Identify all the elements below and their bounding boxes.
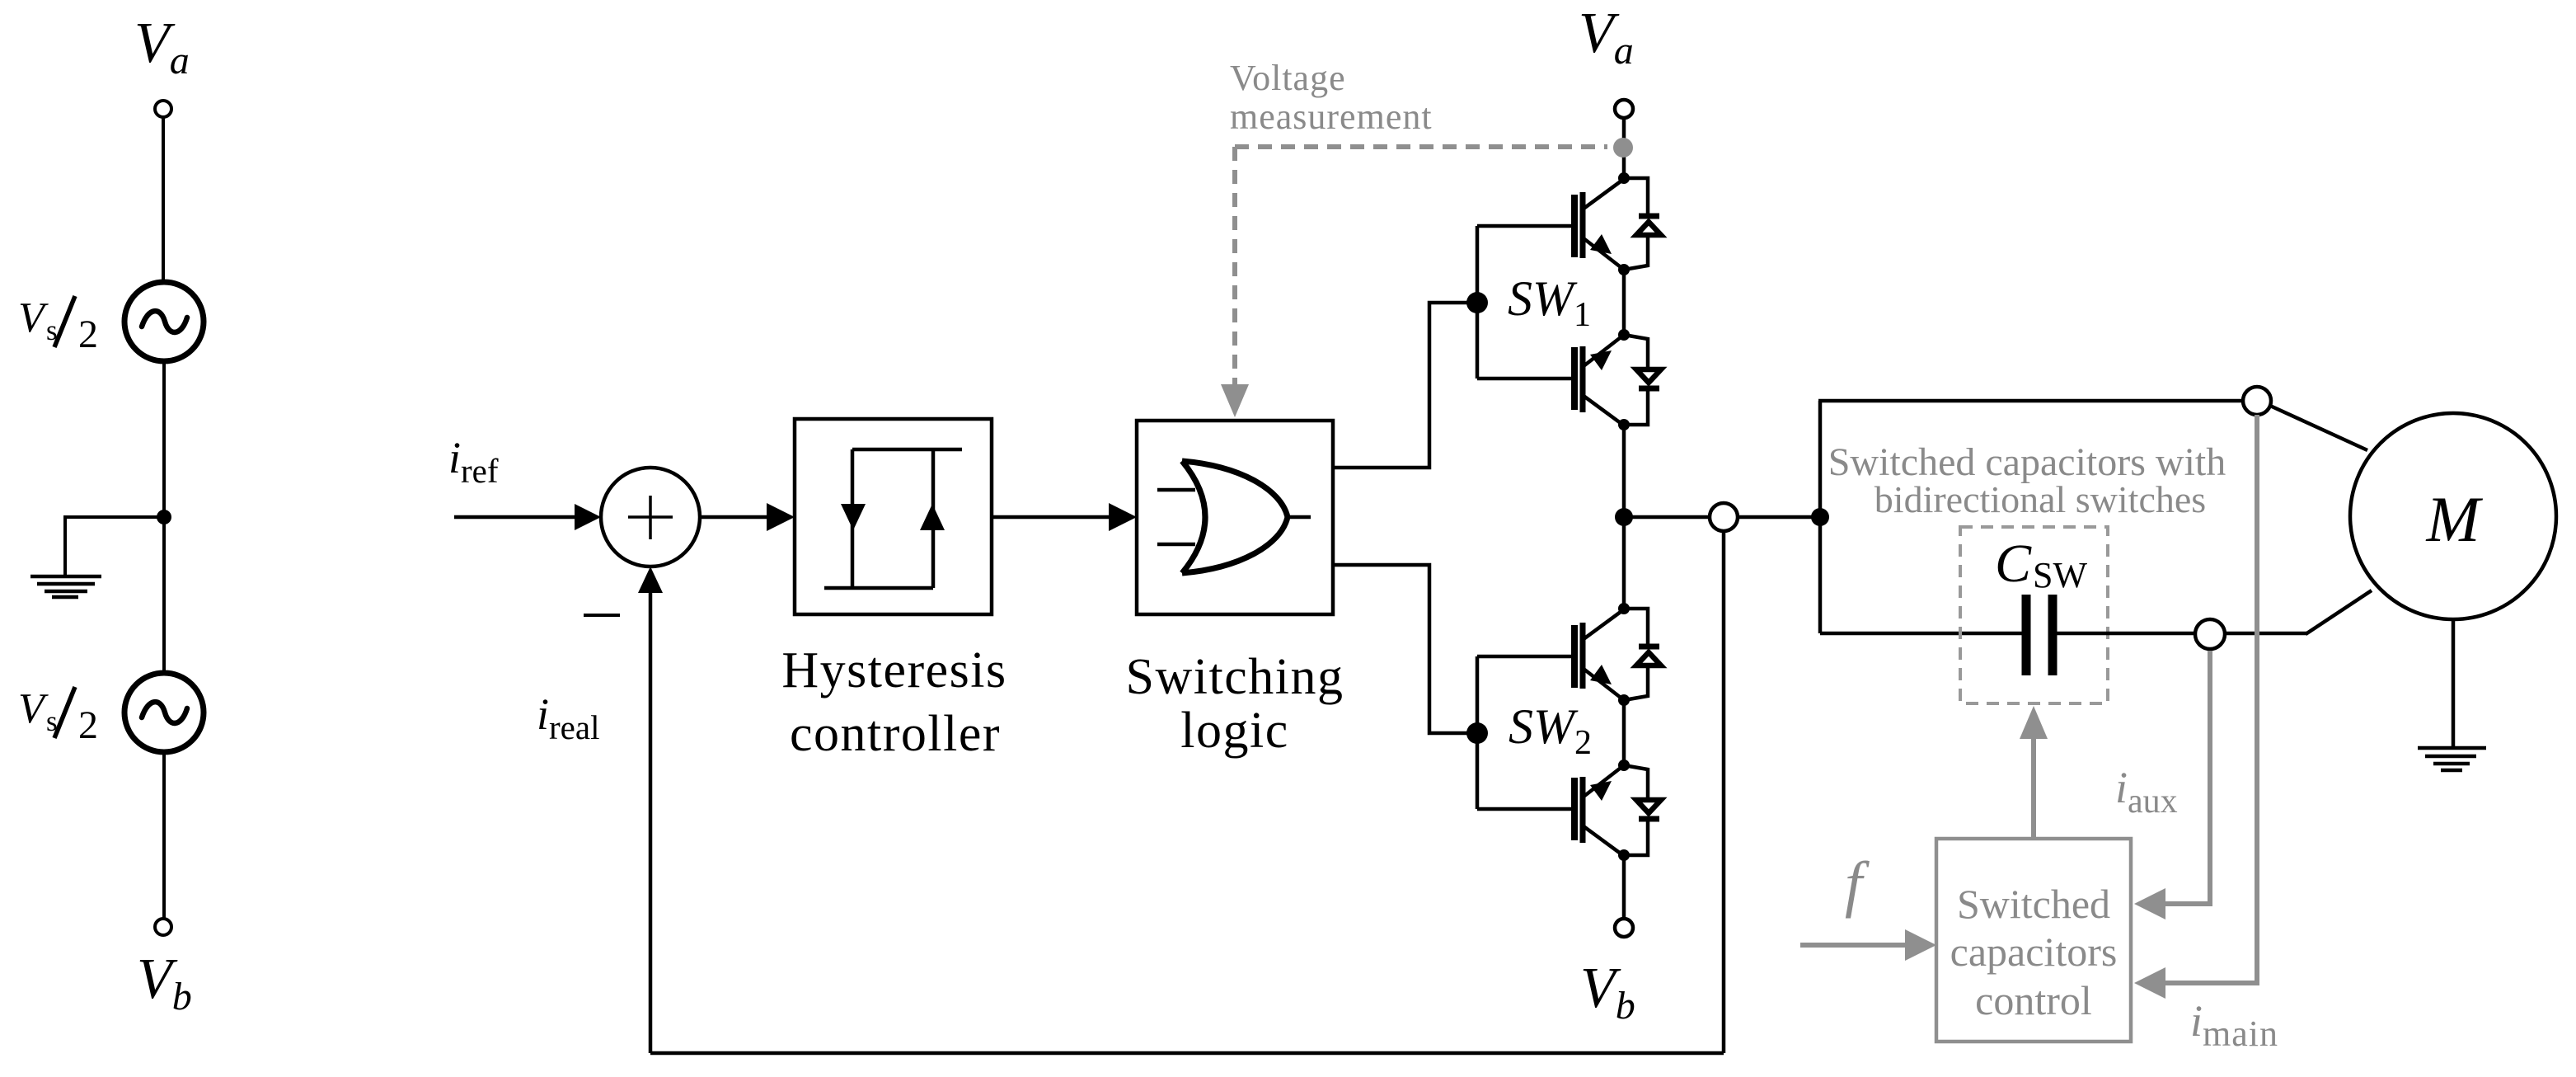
wire bottom rail to slant bbox=[2225, 632, 2307, 636]
svg-text:Hysteresis: Hysteresis bbox=[781, 642, 1006, 698]
node mid lower bbox=[1618, 760, 1630, 771]
OR gate output stub bbox=[1288, 515, 1311, 520]
svg-text:V: V bbox=[18, 294, 49, 341]
arrowhead i_aux into control box (gray) bbox=[2134, 888, 2165, 919]
IGBT QA bbox=[1477, 609, 1624, 700]
wire gate rail bbox=[1476, 226, 1480, 379]
wire switching logic output top bbox=[1333, 303, 1474, 468]
wire switching logic output bottom bbox=[1333, 565, 1475, 733]
diode DA bbox=[1624, 178, 1661, 270]
block switched capacitors control (gray) bbox=[1936, 839, 2131, 1042]
svg-text:2: 2 bbox=[78, 703, 98, 747]
svg-text:controller: controller bbox=[790, 706, 1001, 762]
wire feedback bottom rail bbox=[650, 1051, 1724, 1056]
wire midpoint to source V2 bbox=[162, 517, 166, 673]
arrowhead into hysteresis bbox=[767, 503, 795, 531]
terminal Vb (bridge) bbox=[1615, 919, 1633, 937]
OR gate symbol bbox=[1182, 461, 1288, 573]
ground (motor) bbox=[2418, 748, 2486, 770]
diode DB bbox=[1624, 765, 1661, 855]
block hysteresis controller bbox=[795, 419, 992, 614]
wire i_aux measurement (gray) bbox=[2162, 651, 2210, 904]
dashed box switched capacitor (gray) bbox=[1960, 527, 2108, 703]
node phase junction bbox=[1615, 508, 1633, 526]
wire to ground bbox=[65, 517, 164, 576]
wire top rail to motor bbox=[1818, 399, 2243, 403]
svg-text:capacitors: capacitors bbox=[1950, 929, 2118, 975]
wire Va terminal to IGBT leg bbox=[1622, 118, 1626, 178]
node gray measurement tap bbox=[1613, 138, 1633, 158]
node mid upper bbox=[1618, 694, 1630, 706]
node mid upper bbox=[1618, 264, 1630, 275]
wire bottom rail left bbox=[1820, 632, 2022, 636]
wire V2 to Vb terminal bbox=[162, 752, 166, 919]
ground (left supply midpoint) bbox=[30, 576, 101, 597]
wire SW2 to Vb terminal bbox=[1622, 855, 1626, 919]
svg-text:bidirectional switches: bidirectional switches bbox=[1875, 478, 2206, 520]
node right junction bbox=[1811, 508, 1829, 526]
transistor pair SW2 bbox=[1466, 603, 1661, 861]
svg-text:control: control bbox=[1975, 977, 2092, 1023]
wire f input (gray) bbox=[1800, 943, 1908, 948]
svg-text:measurement: measurement bbox=[1230, 96, 1433, 137]
hysteresis symbol bbox=[824, 449, 962, 588]
node gate bbox=[1466, 722, 1488, 744]
svg-text:2: 2 bbox=[78, 313, 98, 356]
value label Vs/2 (top) bbox=[18, 294, 98, 356]
transistor pair SW1 bbox=[1466, 172, 1661, 430]
wire between IGBTs bbox=[1622, 700, 1626, 765]
dashed measurement line vertical bbox=[1232, 147, 1237, 388]
current measurement point i_main (open circle) bbox=[2243, 387, 2271, 415]
svg-text:Switched: Switched bbox=[1957, 881, 2110, 927]
wire slant top into motor bbox=[2270, 406, 2367, 450]
svg-text:logic: logic bbox=[1180, 703, 1288, 759]
minus sign bbox=[584, 614, 620, 617]
wire i_ref input bbox=[454, 515, 577, 520]
value label Vs/2 (bottom) bbox=[18, 685, 98, 747]
node gate bbox=[1466, 292, 1488, 313]
voltage source V2 (Vs/2 bottom) bbox=[124, 673, 204, 752]
terminal Va (left) bbox=[155, 101, 171, 117]
arrowhead f into control box (gray) bbox=[1905, 929, 1936, 961]
IGBT QB (mirrored) bbox=[1477, 765, 1624, 856]
wire phase rail mid bbox=[1622, 425, 1626, 609]
current measurement point i_real (open circle) bbox=[1710, 503, 1738, 531]
IGBT QA bbox=[1477, 179, 1624, 270]
wire motor to ground bbox=[2452, 619, 2456, 746]
diode DB bbox=[1624, 335, 1661, 425]
wire feedback vertical into summing junction bbox=[649, 586, 653, 1053]
arrowhead feedback up bbox=[638, 567, 663, 593]
node midpoint junction bbox=[157, 510, 171, 524]
block switching logic bbox=[1137, 421, 1333, 614]
wire between IGBTs bbox=[1622, 270, 1626, 335]
capacitor C_SW bbox=[2026, 595, 2053, 675]
svg-text:Switching: Switching bbox=[1126, 649, 1344, 705]
summing junction bbox=[601, 468, 700, 567]
node mid lower bbox=[1618, 329, 1630, 341]
node emitter bottom bbox=[1618, 849, 1630, 861]
motor M bbox=[2350, 413, 2556, 619]
wire i_real measurement drop bbox=[1722, 531, 1726, 1053]
gray control: arrow up to C_SW bbox=[2031, 734, 2036, 839]
terminal Va (bridge) bbox=[1615, 100, 1633, 118]
svg-text:Voltage: Voltage bbox=[1230, 58, 1346, 98]
dashed measurement line horizontal bbox=[1235, 144, 1607, 149]
arrowhead into switching logic bbox=[1109, 503, 1137, 531]
arrowhead into summing junction bbox=[575, 504, 601, 530]
node collector top bbox=[1618, 172, 1630, 184]
OR gate input stubs bbox=[1157, 488, 1195, 492]
wire phase to measurement circle bbox=[1624, 515, 1710, 520]
wire summing junction to hysteresis bbox=[700, 515, 767, 520]
node emitter bottom bbox=[1618, 419, 1630, 430]
wire i_main measurement (gray) bbox=[2162, 415, 2257, 983]
arrowhead measurement into switching logic (gray) bbox=[1221, 384, 1249, 417]
hysteresis symbol up arrow bbox=[920, 504, 945, 530]
wire bottom rail right of capacitor bbox=[2057, 632, 2196, 636]
voltage source V1 (Vs/2 top) bbox=[124, 282, 204, 361]
diode DA bbox=[1624, 609, 1661, 700]
arrowhead i_main into control box (gray) bbox=[2134, 967, 2165, 999]
IGBT QB (mirrored) bbox=[1477, 335, 1624, 426]
wire slant bottom into motor bbox=[2306, 590, 2372, 634]
svg-text:M: M bbox=[2426, 483, 2484, 555]
hysteresis symbol down arrow bbox=[841, 504, 866, 530]
node collector top bbox=[1618, 603, 1630, 614]
wire right junction vertical bbox=[1818, 401, 1823, 633]
wire Va to source V1 bbox=[162, 117, 165, 282]
wire hysteresis to switching logic bbox=[992, 515, 1109, 520]
wire gate rail bbox=[1476, 656, 1480, 809]
current measurement point i_aux (open circle) bbox=[2195, 619, 2225, 649]
svg-text:V: V bbox=[18, 685, 49, 732]
wire V1 to midpoint node bbox=[162, 361, 166, 519]
terminal Vb (left) bbox=[155, 919, 171, 935]
wire measurement circle to right junction bbox=[1738, 515, 1820, 520]
